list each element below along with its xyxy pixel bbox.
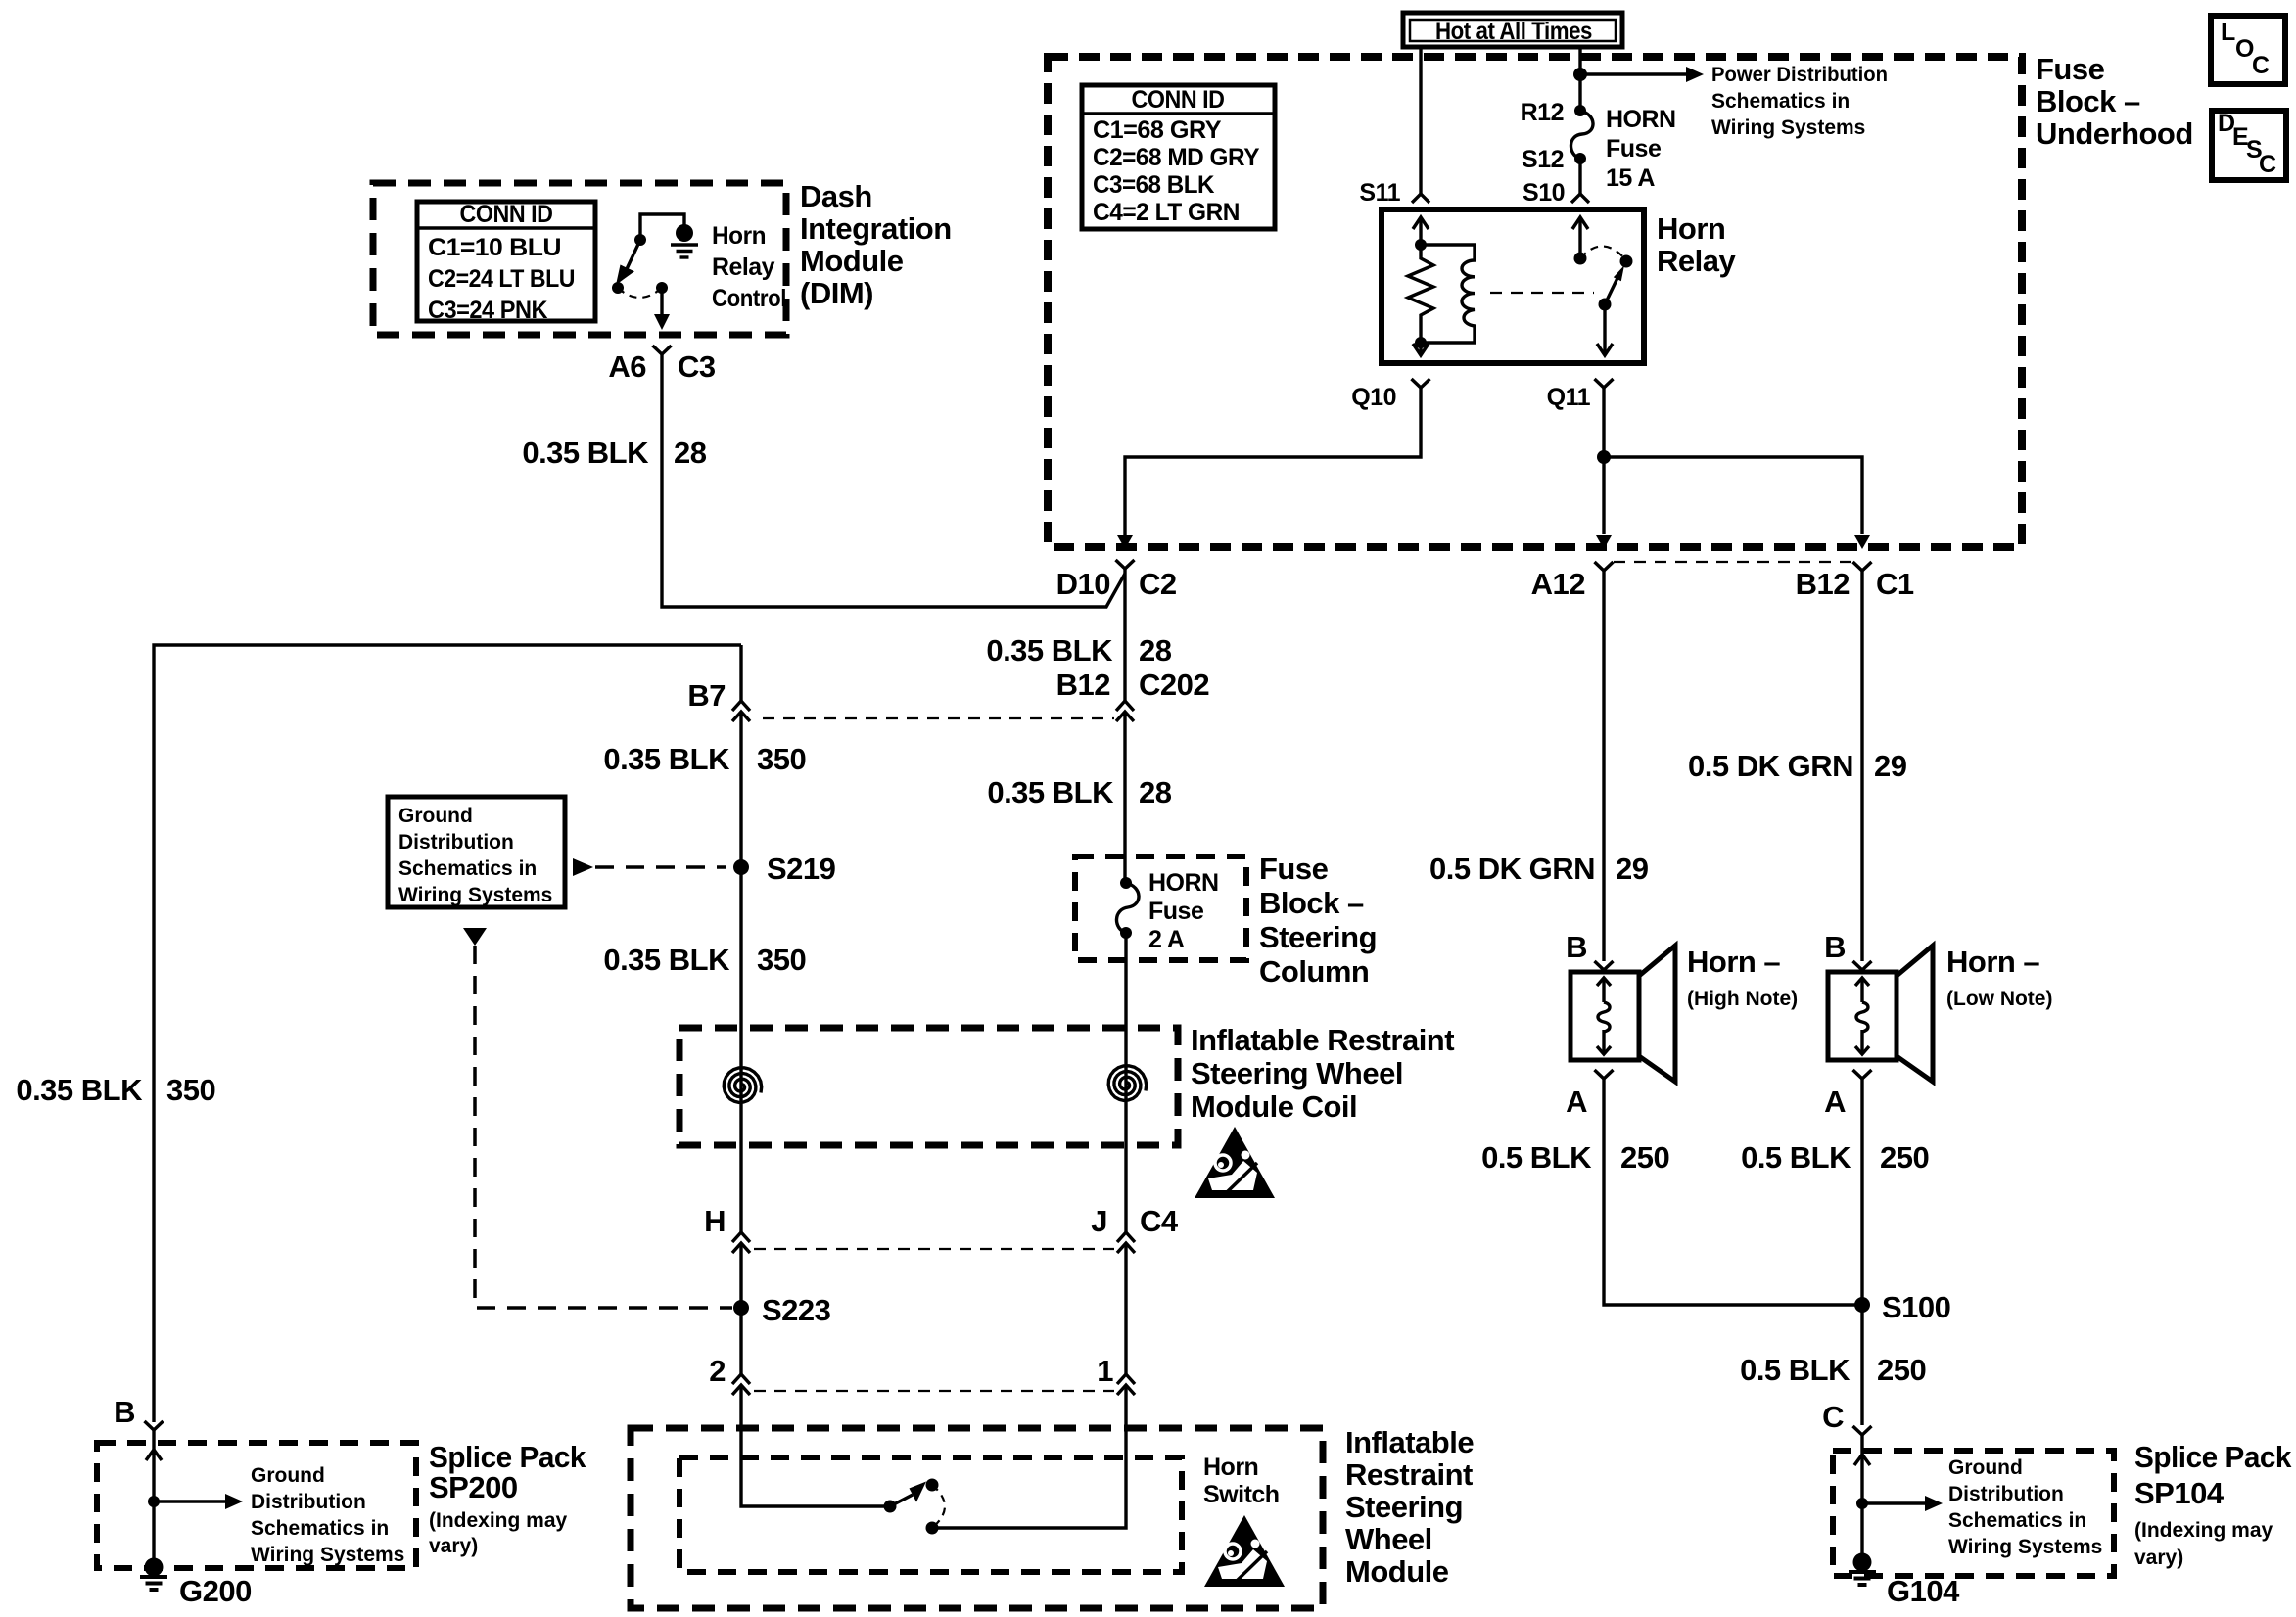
label: Splice Pack SP104	[2134, 1440, 2292, 1569]
svg-text:Horn –: Horn –	[1687, 945, 1780, 979]
DIM horn relay control driver switch	[612, 214, 698, 330]
label: Horn - (High Note)	[1687, 945, 1798, 1010]
svg-text:C3=68 BLK: C3=68 BLK	[1093, 171, 1214, 199]
svg-text:250: 250	[1880, 1140, 1929, 1175]
connector double chevron B12/C202	[1116, 701, 1134, 721]
svg-text:S11: S11	[1359, 179, 1400, 207]
svg-text:CONN ID: CONN ID	[1132, 86, 1225, 114]
svg-text:HORN: HORN	[1148, 869, 1219, 897]
label: Horn Relay	[1657, 211, 1736, 278]
svg-text:CONN ID: CONN ID	[460, 201, 553, 228]
svg-text:Inflatable: Inflatable	[1345, 1425, 1474, 1459]
svg-text:C: C	[1822, 1400, 1844, 1434]
svg-text:0.35 BLK: 0.35 BLK	[987, 775, 1114, 809]
wire: H down to S223	[739, 1243, 742, 1374]
relay coil-side pin arrow up	[1419, 217, 1422, 245]
svg-text:A6: A6	[608, 349, 646, 384]
svg-text:0.5 BLK: 0.5 BLK	[1740, 1353, 1851, 1387]
horn switch dashed throw arc	[932, 1485, 945, 1528]
relay: Horn Relay box	[1382, 209, 1644, 363]
svg-text:Fuse: Fuse	[1259, 852, 1329, 886]
connector dashed line C202	[763, 717, 1114, 719]
label: Horn Switch	[1203, 1454, 1280, 1508]
wire into SP200 with up arrow	[152, 1430, 155, 1568]
wire through left spiral done; right spiral feed	[1124, 1069, 1127, 1102]
svg-text:S223: S223	[762, 1293, 831, 1327]
svg-text:C4=2 LT GRN: C4=2 LT GRN	[1093, 199, 1240, 226]
svg-text:Schematics in: Schematics in	[1711, 90, 1850, 113]
relay switch arm with arrow	[1605, 278, 1617, 304]
svg-text:Switch: Switch	[1203, 1481, 1280, 1508]
connector chevron Q10	[1412, 379, 1430, 388]
svg-text:Splice Pack: Splice Pack	[2134, 1440, 2292, 1474]
label: Splice Pack SP200	[429, 1440, 586, 1557]
svg-text:0.5 BLK: 0.5 BLK	[1741, 1140, 1851, 1175]
label: Power Distribution Schematics in Wiring Systems	[1711, 64, 1888, 139]
svg-text:28: 28	[1139, 775, 1172, 809]
wire: switch to pin 1	[932, 1385, 1126, 1528]
junction dot relay bottom	[1415, 337, 1427, 348]
svg-text:B12: B12	[1796, 567, 1850, 601]
relay switch pin wire down	[1603, 304, 1606, 355]
svg-text:C: C	[2252, 52, 2270, 79]
svg-text:Horn –: Horn –	[1946, 945, 2039, 979]
svg-text:0.5 BLK: 0.5 BLK	[1481, 1140, 1592, 1175]
wire: horn high ground to S100	[1604, 1079, 1862, 1305]
svg-text:Fuse: Fuse	[1606, 135, 1662, 162]
wire: center drop from D10 to coil box	[1123, 569, 1126, 883]
wire: J down to switch row	[1124, 1243, 1127, 1374]
junction dot to power distribution arrow	[1573, 68, 1587, 81]
svg-text:15 A: 15 A	[1606, 164, 1655, 192]
Fuse Block - Underhood dashed enclosure	[1048, 57, 2022, 547]
svg-text:Relay: Relay	[712, 254, 775, 281]
wire: ground run from left column top	[154, 645, 741, 1422]
svg-text:Steering: Steering	[1259, 920, 1377, 954]
svg-text:B: B	[1824, 930, 1846, 964]
svg-text:(Low Note): (Low Note)	[1946, 988, 2052, 1010]
svg-text:28: 28	[1139, 633, 1172, 668]
svg-text:1: 1	[1097, 1354, 1113, 1388]
svg-text:2: 2	[709, 1354, 726, 1388]
wire into SP104 with up arrow	[1860, 1435, 1863, 1562]
svg-text:vary): vary)	[429, 1535, 478, 1557]
svg-text:S100: S100	[1882, 1290, 1950, 1324]
relay switch fixed contact dot	[1574, 253, 1587, 265]
svg-text:D10: D10	[1056, 567, 1110, 601]
svg-text:250: 250	[1620, 1140, 1669, 1175]
svg-text:G104: G104	[1887, 1574, 1960, 1608]
svg-text:Horn: Horn	[1657, 211, 1725, 246]
junction dot SP104	[1856, 1498, 1868, 1509]
label: HORN Fuse 2 A	[1148, 869, 1219, 953]
relay pin arrow down (coil side)	[1419, 343, 1422, 355]
svg-text:Control: Control	[712, 285, 786, 312]
svg-text:Ground: Ground	[398, 805, 473, 827]
wire: left coil exit down	[739, 1104, 742, 1232]
svg-text:Dash: Dash	[800, 179, 872, 213]
svg-text:0.5 DK GRN: 0.5 DK GRN	[1429, 852, 1595, 886]
svg-text:C1: C1	[1876, 567, 1914, 601]
connector double chevron B7	[732, 701, 750, 721]
connector chevron Q11	[1595, 379, 1614, 388]
wire: junction to B12 drop	[1604, 457, 1862, 534]
DESC tag box	[2212, 110, 2286, 180]
splice S100	[1854, 1297, 1870, 1313]
svg-text:0.35 BLK: 0.35 BLK	[603, 943, 730, 977]
svg-text:B: B	[1566, 930, 1587, 964]
fuse HORN 2A symbol	[1116, 877, 1139, 939]
wire: fuse 2A down into coil box	[1124, 933, 1127, 1069]
svg-text:(Indexing may: (Indexing may	[2134, 1519, 2273, 1542]
connector chevron B12/C1	[1853, 562, 1872, 571]
svg-text:350: 350	[757, 742, 806, 776]
svg-text:Block –: Block –	[1259, 886, 1364, 920]
svg-text:S12: S12	[1522, 146, 1564, 173]
svg-text:(High Note): (High Note)	[1687, 988, 1798, 1010]
svg-text:Hot at All Times: Hot at All Times	[1435, 18, 1592, 45]
svg-text:Fuse: Fuse	[2036, 52, 2105, 86]
svg-text:J: J	[1091, 1204, 1107, 1238]
CONN ID table (DIM)	[417, 201, 595, 324]
connector double chevron 1	[1117, 1374, 1135, 1395]
label: Fuse Block - Steering Column	[1259, 852, 1377, 989]
svg-text:C202: C202	[1139, 668, 1209, 702]
wire: A12 down to horn high	[1602, 571, 1605, 961]
svg-text:250: 250	[1877, 1353, 1926, 1387]
svg-text:vary): vary)	[2134, 1547, 2183, 1569]
svg-text:B12: B12	[1056, 668, 1110, 702]
Splice Pack SP104 dashed box	[1833, 1451, 2114, 1576]
svg-text:Module Coil: Module Coil	[1191, 1089, 1357, 1124]
connector dashed line row 2/1	[754, 1390, 1114, 1392]
svg-text:Wiring Systems: Wiring Systems	[1711, 116, 1865, 139]
svg-text:Fuse: Fuse	[1148, 898, 1204, 925]
label: Fuse Block - Underhood	[2036, 52, 2193, 151]
connector chevron S11	[1412, 194, 1429, 203]
coil spiral right	[1108, 1066, 1147, 1101]
connector chevron D10/C2	[1116, 560, 1135, 569]
Inflatable Restraint Steering Wheel Module Coil dashed box	[679, 1028, 1178, 1145]
ground G200	[140, 1558, 252, 1609]
svg-text:Module: Module	[800, 244, 904, 278]
svg-text:HORN: HORN	[1606, 106, 1676, 133]
svg-text:Restraint: Restraint	[1345, 1457, 1473, 1492]
svg-text:Horn: Horn	[1203, 1454, 1258, 1481]
horn high note symbol	[1566, 930, 1675, 1119]
splice S223	[733, 1300, 749, 1316]
svg-text:B: B	[114, 1395, 135, 1429]
svg-text:28: 28	[674, 436, 707, 470]
Inflatable Restraint Steering Wheel Module dashed box	[631, 1428, 1323, 1608]
arrow to ground distribution text	[154, 1500, 225, 1502]
coil spiral left	[739, 1069, 742, 1104]
svg-text:(Indexing may: (Indexing may	[429, 1509, 568, 1532]
svg-text:S219: S219	[767, 852, 836, 886]
svg-text:0.35 BLK: 0.35 BLK	[603, 742, 730, 776]
svg-text:A12: A12	[1531, 567, 1585, 601]
svg-text:C2: C2	[1139, 567, 1177, 601]
svg-text:Schematics in: Schematics in	[251, 1517, 389, 1540]
svg-text:H: H	[704, 1204, 726, 1238]
svg-text:G200: G200	[179, 1574, 252, 1608]
svg-text:Relay: Relay	[1657, 244, 1736, 278]
airbag warning triangle (coil)	[1195, 1127, 1275, 1198]
connector chevron B	[145, 1421, 164, 1430]
svg-text:S10: S10	[1523, 179, 1565, 207]
svg-text:Inflatable Restraint: Inflatable Restraint	[1191, 1023, 1454, 1057]
connector double chevron J/C4	[1117, 1232, 1135, 1253]
svg-text:Ground: Ground	[1948, 1456, 2023, 1479]
Splice Pack SP200 dashed box	[97, 1443, 416, 1568]
svg-text:Q11: Q11	[1547, 384, 1591, 411]
ground G104	[1849, 1553, 1960, 1609]
label: Horn - (Low Note)	[1946, 945, 2052, 1010]
wire: S11 feed from Hot at All Times	[1419, 46, 1422, 194]
relay switch second contact dot	[1620, 255, 1633, 268]
svg-text:Splice Pack: Splice Pack	[429, 1440, 586, 1474]
svg-text:C2=68 MD GRY: C2=68 MD GRY	[1093, 144, 1260, 171]
svg-text:A: A	[1566, 1085, 1587, 1119]
relay coil winding	[1421, 245, 1475, 343]
svg-text:2 A: 2 A	[1148, 926, 1185, 953]
svg-text:29: 29	[1874, 749, 1907, 783]
airbag warning triangle (module)	[1204, 1515, 1285, 1587]
arrow from box to S219	[573, 858, 593, 876]
connector chevron A12	[1595, 562, 1614, 571]
svg-text:Wiring Systems: Wiring Systems	[1948, 1536, 2102, 1558]
svg-text:C1=68 GRY: C1=68 GRY	[1093, 116, 1222, 144]
svg-text:0.35 BLK: 0.35 BLK	[522, 436, 649, 470]
svg-text:R12: R12	[1521, 99, 1564, 126]
svg-text:Distribution: Distribution	[251, 1491, 366, 1513]
svg-text:SP200: SP200	[429, 1470, 518, 1504]
relay actuation dashed link	[1490, 292, 1594, 294]
wire: fuse feed	[1578, 46, 1581, 110]
connector chevron C	[1853, 1426, 1872, 1435]
node: Hot at All Times box	[1403, 13, 1622, 47]
Dash Integration Module dashed box	[373, 183, 786, 335]
svg-text:Module: Module	[1345, 1554, 1449, 1589]
svg-text:0.35 BLK: 0.35 BLK	[986, 633, 1113, 668]
svg-text:350: 350	[166, 1073, 215, 1107]
horn switch wires	[741, 1385, 890, 1506]
connector double chevron H	[732, 1232, 750, 1253]
relay switch-side pin arrow up	[1578, 217, 1581, 258]
connector chevron A6/C3	[653, 346, 672, 354]
svg-text:Distribution: Distribution	[1948, 1483, 2064, 1505]
horn low note symbol	[1824, 930, 1933, 1119]
svg-text:C2=24 LT BLU: C2=24 LT BLU	[428, 265, 575, 293]
svg-text:Steering: Steering	[1345, 1490, 1463, 1524]
horn switch arm	[890, 1495, 913, 1506]
CONN ID table (fuse block)	[1082, 85, 1275, 229]
wire: junction straight down to A12	[1602, 457, 1605, 534]
svg-text:0.35 BLK: 0.35 BLK	[16, 1073, 143, 1107]
svg-text:Column: Column	[1259, 954, 1369, 989]
svg-text:Underhood: Underhood	[2036, 116, 2193, 151]
svg-text:Wiring Systems: Wiring Systems	[251, 1544, 404, 1566]
svg-text:A: A	[1824, 1085, 1846, 1119]
connector chevron S10	[1571, 194, 1589, 203]
wire: B12 down to horn low	[1860, 571, 1863, 961]
wire: arrow to Power Distribution	[1580, 72, 1686, 75]
Fuse Block - Steering Column dashed box	[1075, 856, 1246, 960]
svg-text:Horn: Horn	[712, 222, 766, 250]
connector double chevron 2	[732, 1374, 750, 1395]
svg-text:0.5 DK GRN: 0.5 DK GRN	[1688, 749, 1853, 783]
wire: horn low ground to S100	[1860, 1079, 1863, 1425]
wire: A6 down and across to D10	[662, 354, 1125, 607]
Ground Distribution reference box (upper)	[388, 797, 565, 907]
svg-text:Wheel: Wheel	[1345, 1522, 1432, 1556]
wire: Q10 to D10	[1125, 388, 1421, 536]
arrow to ground distribution text (SP104)	[1862, 1501, 1925, 1504]
svg-text:Q10: Q10	[1351, 384, 1396, 411]
dashed drop from reference box to S223	[463, 928, 487, 946]
LOC tag box	[2211, 16, 2285, 84]
junction dot SP200	[148, 1496, 160, 1507]
label: Dash Integration Module (DIM)	[800, 179, 952, 310]
svg-text:Power Distribution: Power Distribution	[1711, 64, 1888, 86]
svg-text:Schematics in: Schematics in	[398, 857, 537, 880]
svg-text:C3=24 PNK: C3=24 PNK	[428, 297, 547, 324]
svg-text:C1=10 BLU: C1=10 BLU	[428, 234, 561, 261]
svg-text:350: 350	[757, 943, 806, 977]
relay switch dashed throw arc	[1580, 246, 1626, 260]
svg-text:C3: C3	[678, 349, 716, 384]
svg-text:Integration: Integration	[800, 211, 952, 246]
connector dashed line C1 row	[1614, 561, 1852, 563]
svg-text:Wiring Systems: Wiring Systems	[398, 884, 552, 906]
label: HORN Fuse 15 A	[1606, 106, 1676, 192]
connector dashed line C4 row	[754, 1248, 1114, 1250]
svg-text:Block –: Block –	[2036, 84, 2140, 118]
resistor (relay)	[1408, 245, 1433, 343]
svg-text:SP104: SP104	[2134, 1476, 2225, 1510]
svg-text:Ground: Ground	[251, 1464, 325, 1487]
label: Ground Distribution Schematics in Wiring Systems (SP104)	[1948, 1456, 2102, 1558]
label: Horn Relay Control	[712, 222, 786, 312]
wire: Q11 down to junction	[1602, 388, 1605, 457]
wire: S219 down to coil box	[739, 867, 742, 1069]
label: Ground Distribution Schematics in Wiring Systems (SP200)	[251, 1464, 404, 1566]
wire: right coil exit down	[1124, 1102, 1127, 1232]
splice S219	[733, 859, 749, 875]
wire below fuse to relay	[1578, 159, 1581, 194]
wire: B7 drop	[739, 645, 742, 867]
svg-text:C4: C4	[1140, 1204, 1179, 1238]
svg-text:29: 29	[1616, 852, 1649, 886]
label: Inflatable Restraint Steering Wheel Module	[1345, 1425, 1474, 1589]
Horn Switch dashed box	[679, 1457, 1182, 1572]
svg-text:B7: B7	[687, 678, 726, 713]
svg-text:C: C	[2259, 151, 2276, 178]
svg-text:Schematics in: Schematics in	[1948, 1509, 2086, 1532]
junction dot relay top	[1415, 239, 1427, 251]
label: Inflatable Restraint Steering Wheel Module Coil	[1191, 1023, 1454, 1124]
svg-text:Steering Wheel: Steering Wheel	[1191, 1056, 1403, 1090]
svg-text:(DIM): (DIM)	[800, 276, 873, 310]
fuse HORN 15A symbol	[1570, 105, 1593, 164]
svg-text:Distribution: Distribution	[398, 831, 514, 854]
svg-text:L: L	[2221, 19, 2235, 46]
